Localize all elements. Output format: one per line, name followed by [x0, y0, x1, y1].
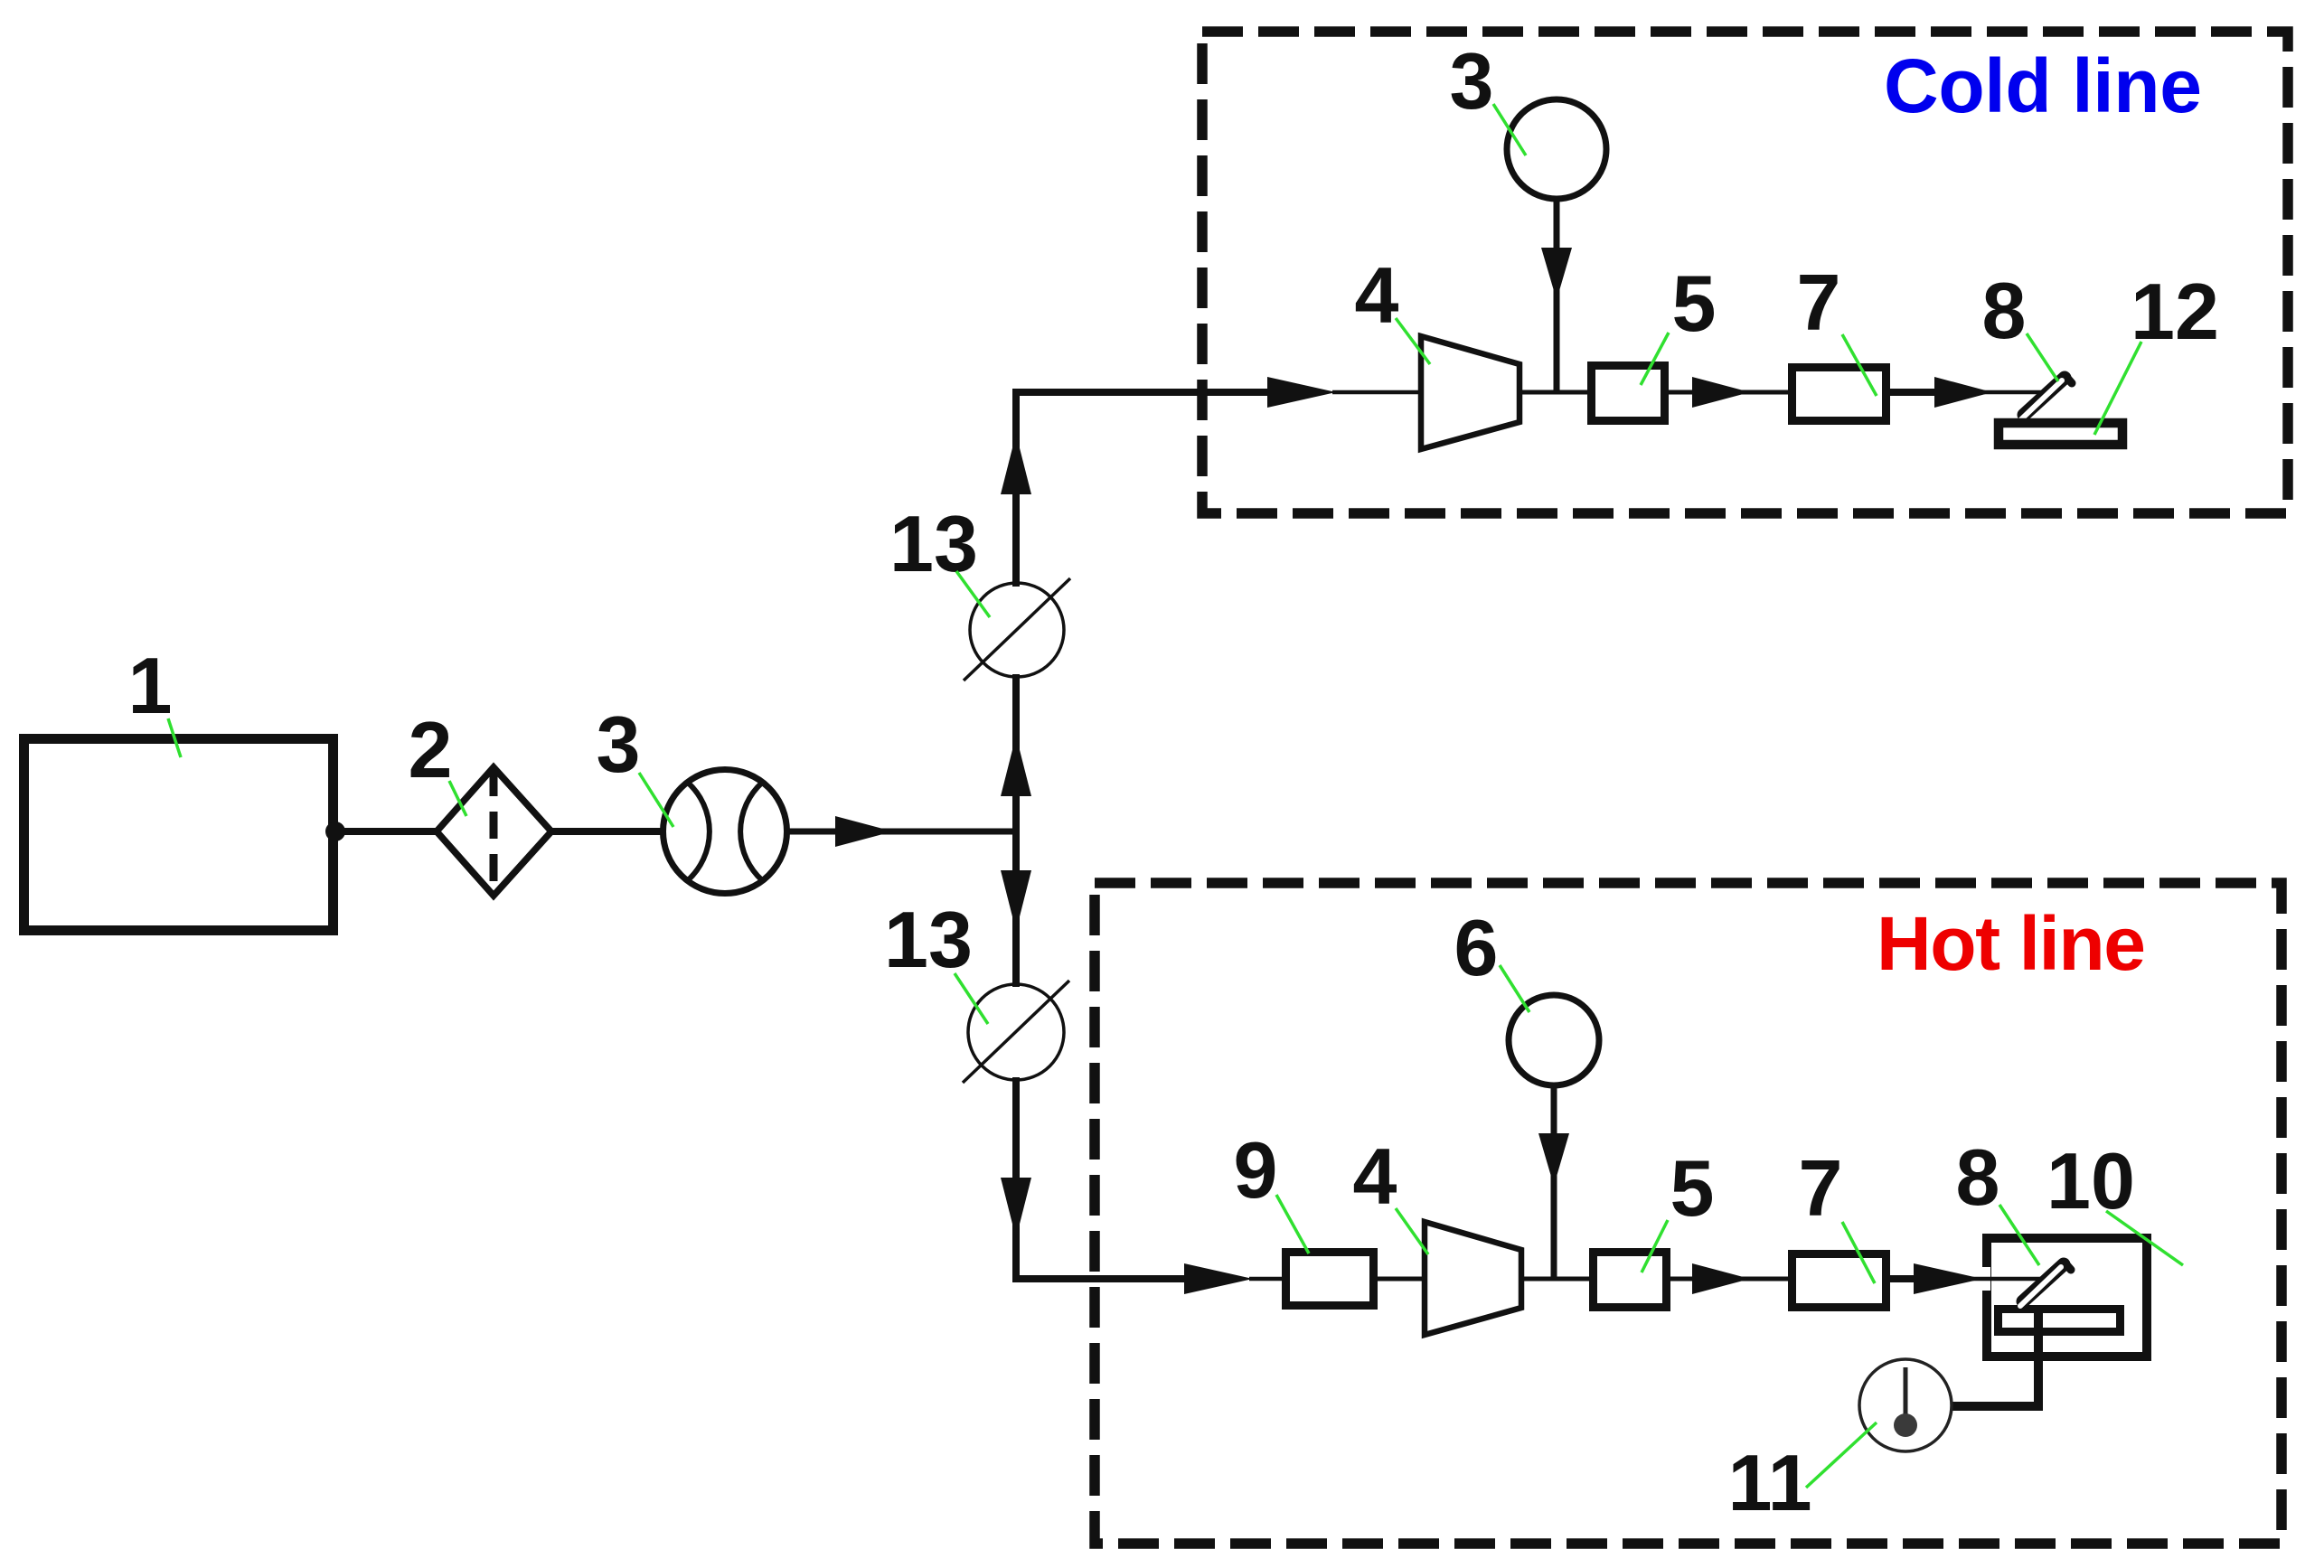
wire box 7 to chamber 10 — [1886, 1275, 1914, 1282]
box 9 — [1286, 1253, 1374, 1306]
box 5 hot — [1594, 1253, 1667, 1308]
wire nozzle to box 5 cold — [1520, 390, 1591, 395]
valve 13 upper — [970, 583, 1064, 677]
leader line 8 hot — [1999, 1205, 2039, 1265]
wire flow meter to tee — [787, 829, 1020, 835]
plate inside chamber 10 — [1999, 1310, 2121, 1332]
riser wire lower valve to hot corner — [1012, 1077, 1020, 1282]
leader line 12 — [2094, 342, 2141, 435]
hot branch wire — [1012, 1275, 1186, 1282]
svg-text:5: 5 — [1670, 1143, 1715, 1233]
box 7 cold — [1792, 368, 1886, 421]
arrow up above tee — [1001, 736, 1031, 796]
leader line 4 cold — [1396, 318, 1430, 364]
svg-text:3: 3 — [1450, 36, 1494, 126]
svg-text:3: 3 — [597, 699, 641, 789]
leader line 7 hot — [1842, 1222, 1875, 1283]
gauge 3 stem wire — [1554, 200, 1560, 392]
plate 12 — [1999, 423, 2122, 445]
arrow on feeder wire — [835, 816, 893, 847]
chamber 10 — [1987, 1238, 2147, 1357]
svg-text:8: 8 — [1982, 266, 2027, 355]
cold branch wire — [1012, 389, 1269, 396]
leader line 3 — [639, 773, 673, 827]
box 7 hot — [1792, 1254, 1886, 1308]
arrow between 5 and 7 hot — [1692, 1263, 1750, 1294]
leader line 13 lower — [955, 973, 988, 1024]
svg-text:9: 9 — [1234, 1125, 1278, 1215]
leader line 9 — [1276, 1195, 1309, 1253]
svg-text:7: 7 — [1799, 1143, 1843, 1233]
svg-text:5: 5 — [1672, 258, 1717, 348]
svg-text:7: 7 — [1797, 258, 1841, 347]
tank 1 — [24, 739, 334, 931]
riser wire tee up to cold corner — [1012, 392, 1020, 587]
gauge 6 stem wire — [1551, 1086, 1557, 1279]
leader line 10 — [2106, 1211, 2183, 1265]
gauge 3 cold — [1507, 99, 1606, 199]
wire arrow to box 9 — [1249, 1277, 1286, 1282]
svg-text:1: 1 — [128, 641, 173, 730]
riser wire valve to tee — [1012, 674, 1020, 835]
node at tank outlet — [325, 822, 345, 841]
wire tank to filter — [335, 828, 439, 835]
svg-text:10: 10 — [2046, 1136, 2135, 1225]
wire through gap to probe hot — [1914, 1277, 2043, 1282]
valve 13 lower — [968, 984, 1064, 1080]
wire box 7 to probe cold — [1890, 389, 1940, 396]
svg-text:12: 12 — [2131, 267, 2219, 356]
arrow into hot box — [1184, 1263, 1253, 1294]
arrow between 7 and chamber 10 — [1914, 1263, 1982, 1294]
nozzle 4 cold — [1421, 336, 1520, 449]
nozzle 4 hot — [1425, 1222, 1521, 1335]
hot line dashed box — [1095, 883, 2282, 1544]
leader line 2 — [449, 781, 466, 816]
leader line 8 cold — [2027, 333, 2058, 381]
box 5 cold — [1592, 366, 1665, 421]
thermometer 11 — [1859, 1359, 1952, 1451]
filter 2 dashed core — [490, 769, 498, 894]
entry gap in chamber 10 wall — [1976, 1267, 1990, 1291]
leader line 6 — [1500, 965, 1529, 1012]
arrow down on gauge 3 stem — [1541, 248, 1572, 300]
wire arrow to nozzle — [1332, 390, 1424, 395]
leader line 7 cold — [1842, 334, 1877, 396]
svg-text:Hot line: Hot line — [1877, 901, 2146, 986]
arrow up below cold corner — [1001, 434, 1031, 494]
wire box 9 to nozzle hot — [1378, 1277, 1425, 1282]
wire nozzle to box 5 hot — [1521, 1277, 1593, 1282]
leader line 5 cold — [1641, 333, 1669, 385]
svg-text:13: 13 — [889, 499, 978, 588]
wire box 5 to box 7 cold — [1669, 390, 1792, 395]
leader line 13 upper — [956, 571, 990, 617]
leader line 11 — [1806, 1422, 1877, 1488]
cold line dashed box — [1202, 32, 2288, 513]
leader line 5 hot — [1642, 1220, 1668, 1272]
svg-text:13: 13 — [884, 895, 973, 984]
filter 2 — [437, 767, 551, 896]
wire filter to flow meter — [550, 828, 666, 835]
svg-text:4: 4 — [1355, 250, 1399, 340]
arrow between 7 and probe cold — [1934, 377, 1992, 408]
svg-text:11: 11 — [1727, 1438, 1811, 1527]
leader line 3 cold — [1493, 104, 1526, 155]
svg-text:Cold line: Cold line — [1884, 43, 2202, 128]
probe 8 hot — [2023, 1264, 2064, 1301]
arrow into cold box — [1267, 377, 1336, 408]
leader line 1 — [168, 718, 181, 757]
svg-text:4: 4 — [1353, 1131, 1397, 1221]
arrow down on gauge 6 stem — [1538, 1133, 1569, 1186]
svg-text:2: 2 — [409, 705, 453, 794]
svg-text:8: 8 — [1956, 1132, 2000, 1222]
gauge 6 — [1509, 995, 1599, 1085]
riser wire tee down to lower valve — [1012, 828, 1020, 987]
arrow between 5 and 7 cold — [1692, 377, 1750, 408]
arrow down below tee — [1001, 870, 1031, 931]
svg-text:6: 6 — [1454, 903, 1499, 992]
wire chamber 10 to thermometer — [1951, 1305, 2038, 1406]
arrow down above hot corner — [1001, 1178, 1031, 1238]
flow meter 3 — [663, 770, 787, 894]
wire box 5 to box 7 hot — [1670, 1277, 1792, 1282]
leader line 4 hot — [1396, 1208, 1428, 1254]
probe 8 cold — [2024, 378, 2065, 415]
